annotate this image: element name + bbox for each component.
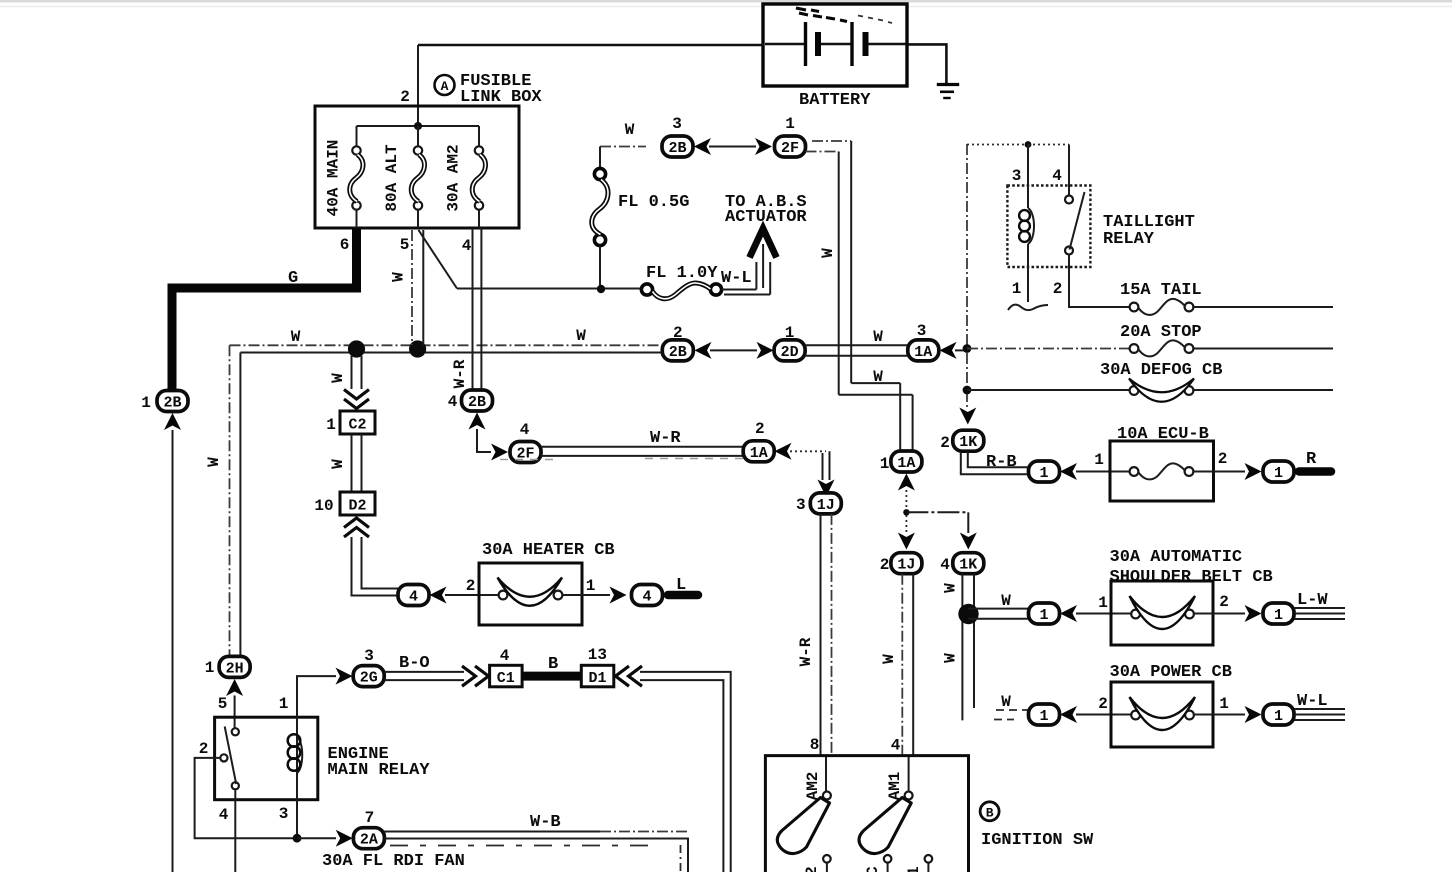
wire into shoulder belt CB [1076, 594, 1131, 614]
svg-text:W: W [205, 457, 223, 467]
svg-text:6: 6 [340, 236, 350, 254]
svg-text:2D: 2D [781, 344, 799, 361]
svg-text:B: B [548, 655, 558, 674]
fusible link box outline [315, 106, 519, 228]
arrow right into 2A [336, 830, 353, 847]
connector 2A pin 7 [322, 809, 465, 871]
svg-text:13: 13 [588, 646, 607, 664]
svg-text:2: 2 [940, 434, 950, 452]
fuse 15A TAIL [1120, 281, 1333, 315]
wire 1A-3 arrow to vertical bus [955, 349, 967, 351]
svg-text:2: 2 [1218, 450, 1228, 468]
connector 1K pin 4 [940, 553, 984, 574]
svg-text:2: 2 [1219, 593, 1229, 611]
connector 2H pin 1 [205, 656, 250, 677]
svg-text:L: L [676, 576, 686, 595]
wire pair D2 to heater CB [352, 537, 399, 596]
svg-text:W-R: W-R [797, 637, 815, 666]
svg-text:3: 3 [364, 647, 374, 665]
wire stub L-W [1295, 591, 1346, 619]
ignition switch AM1 contact [859, 772, 913, 854]
arrow left at shoulder belt input [1060, 605, 1077, 622]
wire pair below 2B-1 to bottom [172, 430, 174, 872]
wire pair 2D to 1A-3 [805, 328, 908, 356]
engine main relay switch [220, 727, 239, 790]
svg-text:C1: C1 [497, 670, 515, 687]
svg-text:2B: 2B [668, 140, 686, 157]
svg-text:1: 1 [141, 394, 151, 412]
circuit breaker 30A HEATER CB [479, 541, 615, 625]
svg-text:30A FL RDI FAN: 30A FL RDI FAN [322, 852, 465, 871]
arrow right into 2G [336, 668, 353, 685]
arrow right at ECU-B output [1245, 463, 1262, 480]
wire 2B-3 to 2F-1 [709, 146, 756, 148]
svg-text:1: 1 [1219, 695, 1229, 713]
svg-text:3: 3 [917, 322, 927, 340]
ignition switch AM2 contact [777, 772, 831, 854]
connector 2B pin 3 [662, 115, 693, 157]
svg-text:1: 1 [1039, 607, 1048, 624]
svg-text:30A HEATER CB: 30A HEATER CB [482, 541, 615, 560]
svg-text:4: 4 [219, 806, 229, 824]
svg-text:W: W [1001, 693, 1011, 711]
connector 1 oval ECU-B left [1029, 461, 1060, 482]
svg-text:2G: 2G [360, 670, 378, 687]
svg-text:15A TAIL: 15A TAIL [1120, 281, 1202, 300]
wire out of ECU-B box [1194, 450, 1246, 472]
arrow down into 1J-3 [818, 480, 835, 498]
wire relay pin 2 loop to pin 3 node [195, 758, 293, 838]
svg-text:2A: 2A [360, 832, 378, 849]
W bus double wire with corner to 2H [205, 327, 662, 656]
arrow left at heater CB input [430, 587, 447, 604]
svg-text:10: 10 [314, 497, 333, 515]
connector 1A pin 3 [908, 322, 939, 361]
arrow down into 1K-2 [959, 408, 976, 425]
svg-text:AM1: AM1 [886, 772, 904, 801]
circuit breaker 30A AUTOMATIC SHOULDER BELT CB [1110, 548, 1273, 645]
ignition switch lower contacts [803, 855, 932, 872]
svg-text:2: 2 [755, 420, 765, 438]
wire pair 1J-2 down to AM1 [880, 574, 913, 792]
svg-text:4: 4 [448, 393, 458, 411]
svg-text:1J: 1J [897, 557, 915, 574]
connector 1J pin 3 [796, 493, 841, 514]
svg-text:FL 1.0Y: FL 1.0Y [646, 264, 718, 283]
connector 2F pin 4 [510, 421, 541, 463]
dotted wire 1A-2 corner down to 1J-3 [790, 451, 830, 480]
svg-text:8: 8 [810, 736, 820, 754]
dashed wire into power CB [994, 693, 1028, 720]
svg-text:LINK BOX: LINK BOX [460, 88, 542, 107]
svg-text:1K: 1K [959, 557, 977, 574]
svg-text:3: 3 [672, 115, 682, 133]
taillight relay box [1007, 167, 1194, 298]
wire relay pin 3 to 2A junction [293, 800, 336, 843]
ground [937, 85, 959, 99]
engine main relay box [199, 695, 431, 824]
wire pair pin5 to bus junction [390, 230, 424, 345]
wire pair 2A to bottom (W-B) [384, 813, 688, 872]
ignition switch box [765, 756, 1094, 872]
svg-text:2B: 2B [163, 395, 181, 412]
svg-text:3: 3 [279, 805, 289, 823]
svg-text:1: 1 [1012, 280, 1022, 298]
svg-text:1: 1 [1274, 465, 1283, 482]
arrow down into 1J-2 [898, 533, 915, 550]
connector C1 [490, 647, 522, 687]
svg-text:1A: 1A [897, 455, 915, 472]
svg-text:W: W [329, 459, 347, 469]
arrow right at heater CB output [610, 587, 627, 604]
svg-text:W: W [329, 373, 347, 383]
connector 1 oval power CB right [1263, 704, 1294, 725]
wire pair pin4 down to 2B-4 [451, 228, 481, 391]
fuse FL 0.5G [592, 168, 690, 285]
svg-text:R: R [1306, 450, 1317, 469]
arrow to ABS actuator [725, 193, 807, 258]
connector 2B pin 1 [141, 391, 188, 413]
wire 2B-2 to 2D [710, 349, 757, 351]
svg-text:2: 2 [803, 866, 821, 872]
connector D2 [314, 492, 375, 515]
arrow down into 1K-4 [960, 533, 977, 550]
svg-text:2F: 2F [781, 140, 799, 157]
fusible link box pin numbers [340, 236, 472, 255]
wire out of power CB [1194, 695, 1245, 715]
connector 1A pin 1 [880, 451, 922, 473]
wire pair D1 to bottom right corner [640, 672, 731, 872]
wire pin2 feed into box [400, 45, 418, 126]
svg-text:ACTUATOR: ACTUATOR [725, 208, 807, 227]
wire pair 2F-4 to 1A-2 (W-R) [500, 429, 745, 460]
svg-text:1: 1 [326, 416, 336, 434]
thick wire stub R [1299, 450, 1331, 472]
arrow left at 1A-3 [940, 342, 957, 359]
fuse 10A ECU-B [1110, 425, 1214, 501]
vertical dash-dot bus to taillight relay and 1K-2 [963, 144, 972, 409]
svg-text:D1: D1 [588, 670, 606, 687]
svg-text:FL 0.5G: FL 0.5G [618, 193, 689, 212]
svg-text:1: 1 [1094, 451, 1104, 469]
svg-text:30A AM2: 30A AM2 [445, 144, 463, 211]
svg-text:30A DEFOG CB: 30A DEFOG CB [1100, 361, 1222, 380]
wire FL 1.0Y to ABS arrow [721, 244, 770, 295]
fusible link 40A MAIN [325, 140, 364, 217]
wire from 2F-1 down (W pair) [806, 141, 913, 451]
connector 1 oval shoulder belt left [1029, 603, 1060, 624]
svg-text:2: 2 [466, 577, 476, 595]
svg-text:1: 1 [1098, 594, 1108, 612]
svg-text:W: W [625, 121, 635, 139]
svg-text:W: W [873, 368, 883, 386]
svg-text:G: G [288, 269, 298, 288]
svg-text:AM2: AM2 [804, 772, 822, 801]
svg-text:2: 2 [673, 324, 683, 342]
fusible link 80A ALT [383, 144, 425, 212]
connector 2B pin 2 [662, 324, 693, 361]
junction node on bus (right) [409, 340, 426, 357]
wire relay pin 1 up to 2G [297, 676, 336, 717]
svg-text:W: W [942, 653, 960, 663]
taillight relay coil [1019, 145, 1034, 303]
connector D1 [581, 646, 614, 687]
svg-text:1: 1 [279, 695, 289, 713]
svg-text:1: 1 [785, 324, 795, 342]
svg-text:2H: 2H [226, 660, 244, 677]
svg-text:2: 2 [1098, 695, 1108, 713]
svg-text:1: 1 [905, 866, 923, 872]
wire battery to fusible link box [418, 44, 764, 47]
svg-text:4: 4 [891, 737, 901, 755]
dashed wire top to taillight relay [967, 141, 1069, 148]
svg-text:W: W [873, 328, 883, 346]
connector 1A pin 2 [743, 420, 774, 462]
connector 2G pin 3 [353, 647, 384, 687]
wire pair C2 to D2 [329, 434, 362, 492]
svg-text:20A STOP: 20A STOP [1120, 323, 1202, 342]
arrow left at 2B-2 [695, 342, 712, 359]
svg-text:W: W [390, 272, 408, 282]
arrow up into 2H [226, 679, 243, 696]
connector 1 oval power CB left [1029, 704, 1060, 725]
svg-text:4: 4 [1052, 167, 1062, 185]
svg-text:4: 4 [642, 589, 651, 606]
dotted wire below 1A-1 with junction [903, 490, 968, 533]
svg-text:3: 3 [796, 496, 806, 514]
wire pair C2 chain from left junction [329, 356, 362, 389]
arrow left at power CB input [1060, 706, 1077, 723]
chevron double down into C2 [344, 390, 369, 409]
svg-text:W: W [576, 327, 586, 345]
wire pair junction to shoulder belt CB [969, 592, 1029, 619]
svg-text:30A POWER CB: 30A POWER CB [1110, 663, 1232, 682]
connector 1K pin 2 [940, 430, 984, 452]
fusible link 30A AM2 [445, 144, 486, 211]
svg-text:4: 4 [940, 556, 950, 574]
svg-text:2: 2 [199, 740, 209, 758]
connector 2B pin 4 [448, 390, 493, 411]
taillight relay pin1 wire end squiggle [1008, 305, 1048, 311]
svg-text:4: 4 [409, 589, 418, 606]
svg-text:W-L: W-L [1297, 692, 1328, 711]
svg-text:C: C [864, 866, 882, 872]
wire out of shoulder belt CB [1194, 593, 1245, 614]
junction node on bus (left) [348, 340, 365, 357]
wire into ECU-B box [1076, 451, 1130, 472]
circuit breaker 30A POWER CB [1110, 663, 1232, 747]
svg-text:W-L: W-L [721, 269, 752, 288]
svg-text:1A: 1A [750, 445, 768, 462]
thick wire stub L [668, 576, 698, 595]
arrow up into 2B-4 [469, 413, 486, 430]
diagonal wire from fuse box to FL row [419, 230, 458, 289]
svg-text:W: W [880, 654, 898, 664]
svg-text:5: 5 [218, 695, 228, 713]
svg-text:1: 1 [205, 659, 215, 677]
arrow up into 2B-1 [164, 413, 181, 430]
wire 2B-4 to 2F-4 [477, 429, 491, 452]
svg-text:W-R: W-R [451, 359, 469, 388]
thick wire G from pin 6 to connector 2B-1 [172, 228, 357, 391]
wire pair R-B from 1K-2 to ECU-B [961, 452, 1029, 475]
svg-text:1: 1 [1274, 607, 1283, 624]
svg-text:A: A [441, 79, 449, 94]
svg-text:1: 1 [785, 115, 795, 133]
svg-text:D2: D2 [348, 498, 366, 515]
svg-text:1J: 1J [817, 497, 835, 514]
svg-text:1: 1 [880, 455, 890, 473]
svg-text:1: 1 [1274, 708, 1283, 725]
fuse 20A STOP [967, 323, 1333, 356]
fuse FL 1.0Y [641, 264, 721, 299]
fusible link box internal bus [357, 122, 480, 228]
wire relay pin 4 down [234, 790, 236, 872]
circuit breaker 30A DEFOG CB [967, 361, 1333, 402]
svg-text:4: 4 [500, 647, 510, 665]
svg-text:1: 1 [1039, 708, 1048, 725]
wire stub W-L [1295, 692, 1346, 720]
svg-text:5: 5 [400, 236, 410, 254]
svg-text:SHOULDER BELT CB: SHOULDER BELT CB [1110, 568, 1273, 587]
wire pair 1J-3 down to AM2 (W-R) [797, 514, 832, 792]
svg-text:RELAY: RELAY [1103, 230, 1155, 249]
svg-text:2: 2 [400, 88, 410, 106]
connector 2F pin 1 [775, 115, 806, 157]
svg-text:3: 3 [1012, 167, 1022, 185]
svg-text:1: 1 [1039, 465, 1048, 482]
wire into power CB [1076, 695, 1131, 715]
engine main relay coil [288, 717, 303, 800]
chevron double right into C1 [462, 666, 489, 686]
svg-text:1: 1 [586, 577, 596, 595]
svg-text:40A MAIN: 40A MAIN [325, 140, 343, 217]
arrow right at shoulder belt output [1245, 605, 1262, 622]
svg-text:W: W [1001, 592, 1011, 610]
svg-text:7: 7 [365, 809, 375, 827]
label A fusible link box [435, 72, 543, 107]
svg-text:30A AUTOMATIC: 30A AUTOMATIC [1110, 548, 1243, 567]
connector 4 oval left of heater CB [398, 585, 429, 606]
wire battery to ground [907, 44, 946, 83]
svg-text:2B: 2B [468, 394, 486, 411]
wire into heater CB [445, 577, 499, 595]
svg-text:4: 4 [462, 237, 472, 255]
svg-text:C2: C2 [348, 417, 366, 434]
svg-text:W: W [819, 248, 837, 258]
svg-text:W: W [942, 583, 960, 593]
arrow left at 2B-3 [694, 138, 711, 155]
thick wire B between C1 and D1 [522, 655, 581, 676]
wire out of heater CB [563, 577, 611, 595]
chevron double up below D2 [344, 518, 369, 537]
svg-text:2: 2 [1053, 280, 1063, 298]
taillight relay switch [1065, 145, 1130, 308]
wire pair 1K-4 down with junction node [942, 574, 979, 721]
svg-text:IGNITION SW: IGNITION SW [981, 831, 1094, 850]
svg-text:1K: 1K [959, 434, 977, 451]
svg-text:4: 4 [520, 421, 530, 439]
battery [763, 4, 907, 110]
svg-text:W-R: W-R [650, 429, 681, 448]
arrow right at 2F-1 [755, 138, 772, 155]
svg-text:W-B: W-B [530, 813, 561, 832]
svg-text:B-O: B-O [399, 654, 430, 673]
wire 2H to engine main relay pin 5 [218, 695, 235, 732]
connector 1J pin 2 [880, 553, 922, 574]
wire FL row horizontal [457, 285, 642, 293]
chevron double left after D1 [616, 666, 643, 686]
connector 1 oval ECU-B right [1263, 461, 1294, 482]
wire 2B-3 to FL 0.5G [600, 121, 646, 169]
svg-text:1A: 1A [914, 344, 932, 361]
wire pair 2G to C1 (B-O) [384, 654, 464, 680]
connector 4 oval right of heater CB [632, 585, 663, 606]
connector 2D pin 1 [774, 324, 805, 361]
arrow left at ECU-B input [1060, 463, 1077, 480]
svg-text:W: W [291, 328, 301, 346]
svg-text:2B: 2B [669, 344, 687, 361]
svg-text:B: B [986, 805, 994, 820]
arrow right at power CB output [1245, 706, 1262, 723]
svg-text:R-B: R-B [986, 453, 1017, 472]
connector 1 oval shoulder belt right [1263, 603, 1294, 624]
svg-text:80A ALT: 80A ALT [383, 144, 401, 212]
svg-text:MAIN RELAY: MAIN RELAY [328, 761, 431, 780]
svg-text:L-W: L-W [1297, 591, 1328, 610]
svg-text:2: 2 [880, 556, 890, 574]
arrow left at 1A-2 [775, 443, 792, 460]
arrow right into 2F-4 [491, 444, 508, 461]
arrow up into 1A-1 [898, 474, 915, 491]
connector C2 [326, 411, 375, 434]
svg-text:BATTERY: BATTERY [799, 91, 871, 110]
arrow right into 2D [757, 342, 774, 359]
